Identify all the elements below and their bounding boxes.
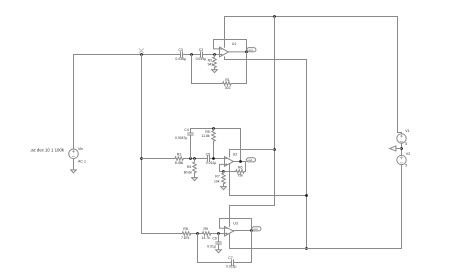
voltage source V1: [397, 134, 406, 143]
svg-text:R7: R7: [215, 174, 220, 178]
capacitor C7: [232, 260, 234, 265]
svg-text:R8: R8: [183, 227, 188, 231]
ground Vin: [71, 170, 77, 173]
svg-text:U1: U1: [232, 42, 237, 46]
wire V1 to midpoint: [401, 143, 403, 155]
net flag output mid stage: [246, 158, 255, 162]
svg-text:R3: R3: [177, 152, 182, 156]
wire C7 feedback loop: [198, 234, 232, 263]
node mid line junction dot at (141.5,158.5): [140, 157, 143, 160]
wire U2 V- stub: [230, 164, 307, 195]
svg-text:V2: V2: [406, 152, 410, 156]
voltage source Vin: [69, 149, 79, 159]
capacitor C5: [208, 156, 210, 161]
svg-text:C7: C7: [228, 256, 233, 260]
wire U2 output: [234, 161, 247, 163]
node input/HP junction dot at (141.5,54.5): [140, 53, 143, 56]
resistor R7: [222, 172, 226, 187]
svg-text:302: 302: [225, 86, 231, 90]
net flag output bottom stage: [252, 227, 261, 231]
svg-text:C3: C3: [178, 48, 183, 52]
wire V2 bottom drop: [401, 165, 403, 249]
svg-text:11.8k: 11.8k: [202, 134, 210, 138]
node A dot at (191.5,54.5): [190, 53, 193, 56]
svg-text:80.6k: 80.6k: [184, 170, 193, 174]
svg-text:R1: R1: [225, 78, 230, 82]
wire C5 to U2 minus input: [210, 158, 225, 160]
node V+ junction dot at (274.5,16.5): [273, 15, 276, 18]
svg-text:10k: 10k: [214, 180, 220, 184]
node C6 branch dot: [217, 232, 220, 235]
node U2 bias dot: [222, 170, 225, 173]
wire U1 output: [229, 51, 247, 53]
wire R1 feedback bottom: [192, 55, 223, 84]
svg-text:U2: U2: [233, 152, 238, 156]
resistor R8: [182, 232, 190, 236]
node R5 top dot: [212, 127, 215, 130]
wire U1 V- stub and V- feed line: [225, 57, 307, 249]
svg-text:AC 1: AC 1: [78, 159, 86, 163]
svg-text:R6: R6: [238, 166, 243, 170]
voltage source V2: [397, 155, 406, 164]
resistor R9: [202, 232, 210, 236]
ground R2: [212, 70, 218, 73]
wire U3 minus feedback loop: [220, 219, 252, 231]
svg-text:5: 5: [405, 142, 407, 146]
svg-text:0.0047µ: 0.0047µ: [175, 136, 187, 140]
svg-text:0.038µ: 0.038µ: [175, 57, 185, 61]
wire middle input line: [142, 158, 175, 160]
svg-text:out: out: [248, 158, 252, 162]
wire left column x=141.5: [141, 55, 143, 234]
wire R8 to R9: [191, 233, 203, 235]
wire U3 V- stub: [229, 234, 231, 249]
node M dot C4 branch: [189, 157, 192, 160]
resistor R2: [213, 55, 217, 70]
op-amp U3: [225, 226, 234, 236]
node C7 branch dot: [196, 232, 199, 235]
svg-text:7.87k: 7.87k: [181, 236, 190, 240]
wire C3 to node A: [183, 54, 201, 56]
resistor R1: [223, 82, 232, 86]
wire U1 minus feedback loop: [214, 40, 247, 52]
wire U2 plus input to bias node: [220, 164, 225, 171]
capacitor C2: [201, 52, 203, 57]
wire V+ center drop x=274.5: [274, 17, 276, 206]
node U1 output dot: [245, 51, 248, 54]
svg-text:U3: U3: [233, 222, 238, 226]
wire Vin down to ground: [73, 159, 75, 170]
wire C7 to output: [234, 231, 252, 263]
node V- junction dot at (306.5,195.5): [305, 194, 308, 197]
svg-text:0.012µ: 0.012µ: [206, 161, 216, 165]
op-amp U1: [220, 47, 229, 57]
capacitor C3: [181, 52, 183, 57]
node V- junction dot at (306.5,248.5): [305, 247, 308, 250]
ground R4: [192, 178, 198, 181]
wire U3 V+ feed: [230, 206, 275, 227]
resistor R4: [193, 159, 197, 178]
svg-text:0.01µ: 0.01µ: [207, 245, 216, 249]
svg-text:0.022µ: 0.022µ: [226, 265, 236, 269]
svg-text:941: 941: [208, 62, 214, 66]
svg-text:out: out: [249, 48, 253, 52]
wire C2 to U1 plus input: [203, 54, 220, 56]
svg-text:out: out: [254, 227, 258, 231]
svg-text:C6: C6: [212, 237, 217, 241]
svg-text:75k: 75k: [237, 174, 243, 178]
svg-text:C5: C5: [206, 153, 211, 157]
wire U3 output: [234, 230, 252, 232]
svg-text:.ac dec 10 1 100k: .ac dec 10 1 100k: [30, 147, 65, 152]
wire V+ top rail: [225, 16, 398, 18]
resistor R6: [224, 162, 246, 174]
wire R1 to output: [231, 52, 246, 84]
ground R7: [221, 187, 227, 190]
wire U1 V+ stub: [224, 17, 226, 48]
wire bottom input line: [142, 233, 183, 235]
svg-text:C4: C4: [184, 128, 189, 132]
wire U2 V+ feed: [230, 150, 275, 157]
node V+ junction dot at (274.5,149.5): [273, 148, 276, 151]
svg-text:0.039µ: 0.039µ: [196, 57, 206, 61]
wire C4 top rail to output: [191, 129, 241, 162]
wire R9 to U3 plus input: [211, 233, 225, 235]
ground supply midpoint (points left): [390, 146, 402, 151]
svg-text:8.45k: 8.45k: [175, 161, 184, 165]
ground C6: [216, 250, 222, 253]
svg-text:R9: R9: [204, 227, 209, 231]
op-amp U2: [225, 157, 234, 167]
node U3 output dot: [250, 229, 253, 232]
wire Vin up: [73, 55, 75, 150]
wire V- bottom rail: [230, 248, 402, 250]
net flag output top stage: [247, 48, 256, 52]
resistor R5: [212, 129, 216, 159]
capacitor C4: [188, 129, 193, 159]
capacitor C6: [216, 234, 221, 250]
svg-text:14.7k: 14.7k: [202, 236, 211, 240]
svg-text:C2: C2: [199, 48, 204, 52]
node marker X above junction: [139, 49, 144, 53]
svg-text:Vin: Vin: [78, 147, 83, 151]
node supply midpoint dot: [400, 147, 403, 150]
wire top input line: [74, 54, 181, 56]
node U2 output dot: [239, 160, 242, 163]
wire R3 to node M: [184, 158, 208, 160]
resistor R3: [175, 157, 184, 161]
wire V+ right drop to V1: [398, 17, 402, 134]
svg-text:5: 5: [405, 164, 407, 168]
svg-text:V1: V1: [405, 129, 409, 133]
node U1 plus input dot at (214.5,54.5): [213, 53, 216, 56]
node M dot R4 branch: [193, 157, 196, 160]
svg-text:R4: R4: [187, 165, 192, 169]
node U2 minus input dot: [212, 157, 215, 160]
